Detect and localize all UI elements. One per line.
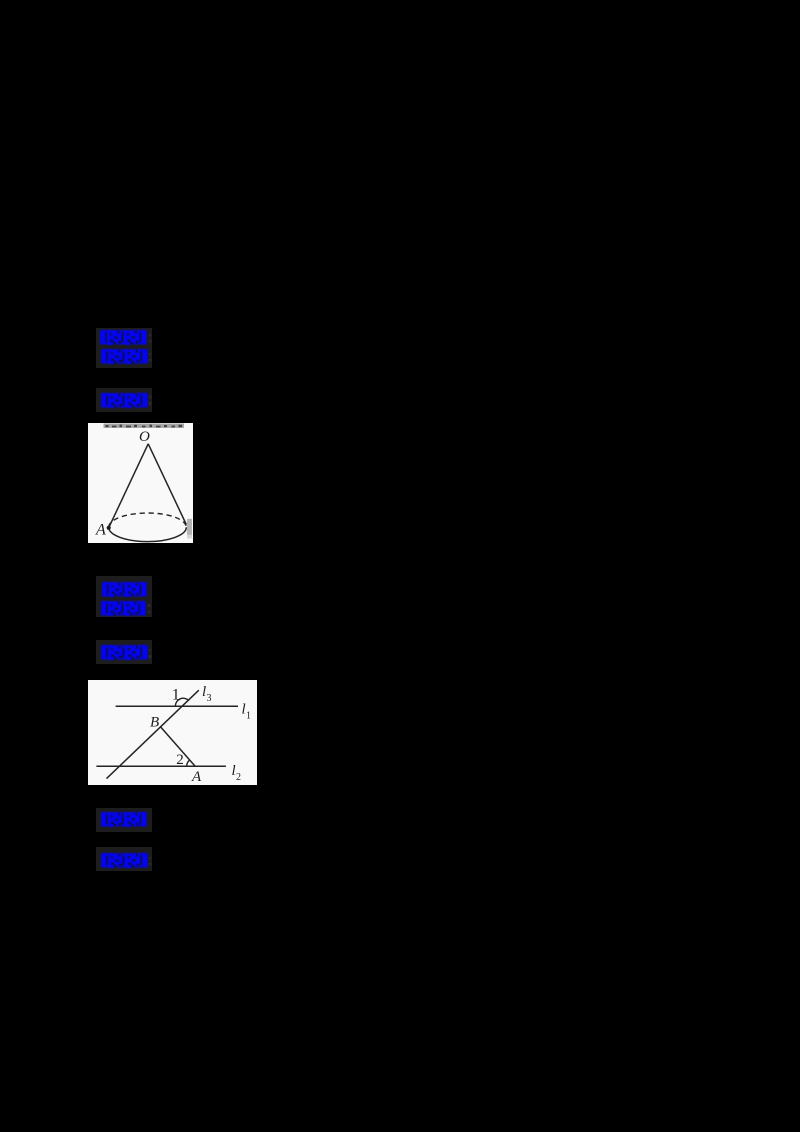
highlight box jieda (96, 808, 152, 832)
smudge strip at top (104, 424, 185, 428)
label [zhuanti] 1 (100, 349, 148, 369)
highlight box pair 1 (96, 328, 152, 368)
label [fenxi] 1 (100, 393, 148, 413)
point A dot (107, 526, 111, 530)
highlight box pair 2 (96, 576, 152, 616)
svg-text:2: 2 (236, 772, 241, 783)
base ellipse dashed top half (109, 513, 187, 527)
figure 1: cone box (88, 423, 193, 543)
svg-text:B: B (150, 715, 159, 731)
label [kaodian] 2 (101, 582, 147, 602)
angle 2 arc (187, 760, 190, 766)
highlight box fenxi 1 (96, 388, 152, 412)
svg-text:A: A (191, 769, 202, 785)
cone right generator (148, 444, 186, 525)
svg-text:2: 2 (176, 752, 184, 768)
label [jieda] (100, 812, 147, 832)
label [zhuanti] 2 (100, 601, 146, 621)
highlight box dianping (96, 847, 152, 871)
svg-text:O: O (139, 429, 150, 445)
angle 1 arc (175, 698, 189, 706)
highlight box fenxi 2 (96, 640, 152, 664)
gray artifact right edge (187, 519, 192, 535)
line l1 (116, 705, 238, 707)
figure 2: parallel lines box (88, 680, 257, 785)
line l2 (96, 765, 226, 767)
segment BA (161, 727, 195, 766)
base ellipse solid bottom half (109, 527, 187, 541)
cone left generator (109, 444, 149, 528)
line l3 (107, 690, 199, 778)
svg-text:1: 1 (172, 687, 180, 704)
label [kaodian] 1 (99, 330, 147, 350)
label [fenxi] 2 (100, 645, 148, 665)
svg-text:1: 1 (246, 711, 251, 722)
svg-text:3: 3 (207, 693, 212, 704)
label [dianping] (100, 853, 148, 873)
svg-text:A: A (95, 522, 106, 539)
